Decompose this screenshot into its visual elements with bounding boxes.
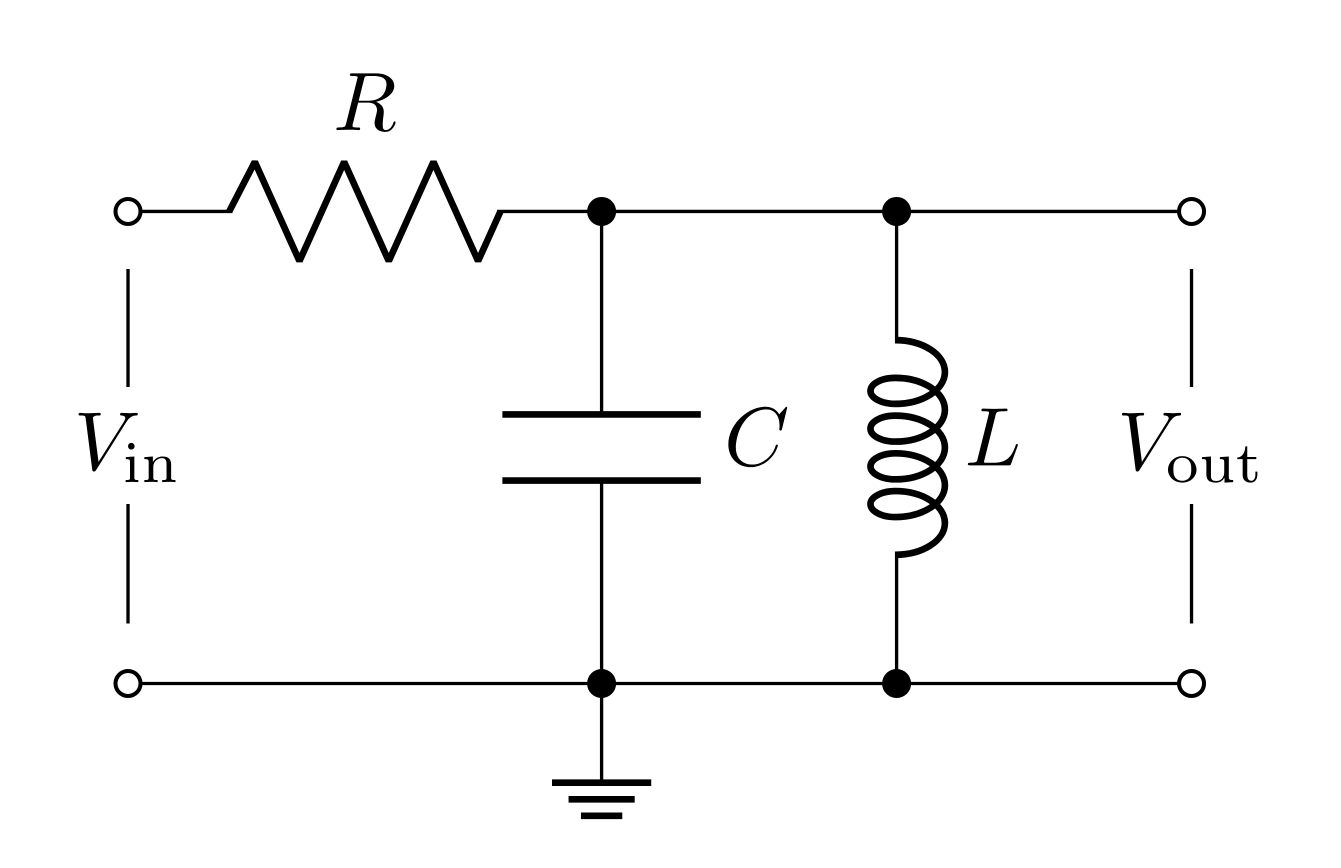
wire: capacitor C leads [601, 211, 603, 683]
wire: input terminal to resistor and resistor to node A [128, 210, 602, 212]
node A (junction dot, top of C) [587, 197, 616, 226]
terminal: top-right output (ocirc) [1179, 199, 1204, 224]
label Vout (out subscript) [1168, 446, 1257, 482]
resistor R [229, 162, 500, 261]
terminal: bottom-right output (ocirc) [1179, 671, 1204, 696]
wire: node B to output terminal [897, 210, 1192, 212]
voltage marker Vout upper line [1191, 269, 1193, 387]
wire: bottom rail [128, 683, 1192, 685]
wire: node A to node B [602, 210, 897, 212]
terminal: top-left input (ocirc) [116, 199, 141, 224]
label Vout (V) [1122, 413, 1181, 472]
wire: ground stem [601, 684, 603, 783]
value label L [968, 409, 1018, 466]
wire: inductor L leads [896, 211, 898, 683]
node C (junction dot, bottom of C / ground tap) [587, 669, 616, 698]
voltage marker Vout lower line [1191, 504, 1193, 624]
label Vin (in subscript) [126, 443, 176, 482]
value label R [336, 73, 395, 132]
voltage marker Vin lower line [127, 504, 129, 624]
label Vin (V) [79, 413, 138, 472]
capacitor C [502, 414, 700, 480]
value label C [728, 407, 787, 467]
inductor L (coil) [870, 340, 944, 555]
node D (junction dot, bottom of L) [882, 669, 911, 698]
voltage marker Vin upper line [127, 269, 129, 387]
ground [552, 783, 651, 816]
terminal: bottom-left input (ocirc) [116, 671, 141, 696]
node B (junction dot, top of L) [882, 197, 911, 226]
